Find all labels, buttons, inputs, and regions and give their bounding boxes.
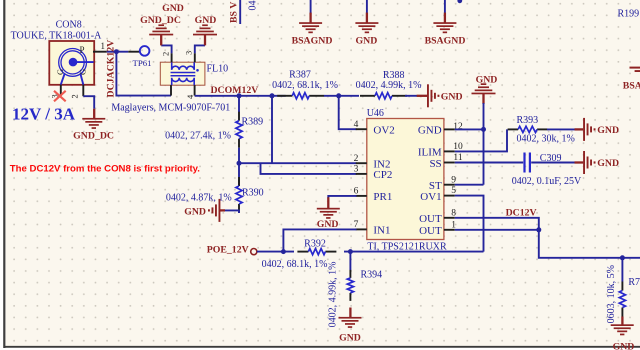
- svg-text:3: 3: [354, 165, 359, 175]
- resistor R393: [508, 128, 518, 130]
- capacitor C309: [523, 153, 525, 173]
- wire SS to C309: [455, 162, 523, 164]
- svg-text:G: G: [78, 69, 88, 75]
- svg-text:SS: SS: [429, 158, 441, 170]
- svg-text:R389: R389: [242, 116, 264, 127]
- svg-text:12V / 3A: 12V / 3A: [12, 105, 76, 124]
- U46 pin names right: [418, 125, 442, 237]
- wire OV2 tap down to pin 4: [339, 96, 357, 129]
- node junction OUT: [536, 227, 541, 232]
- wire R389 to junction: [238, 148, 240, 164]
- svg-text:TOUKE, TK18-001-A: TOUKE, TK18-001-A: [11, 30, 103, 41]
- svg-text:DC12V: DC12V: [506, 207, 537, 218]
- svg-text:0402, 68.1k, 1%: 0402, 68.1k, 1%: [262, 259, 328, 270]
- partial ground right edge: [630, 67, 640, 69]
- svg-text:12: 12: [453, 122, 463, 132]
- svg-text:OUT: OUT: [419, 213, 442, 225]
- resistor R387: [277, 95, 292, 97]
- no-ERC red cross: [54, 91, 66, 102]
- svg-text:0402, 4.99k, 1%: 0402, 4.99k, 1%: [356, 80, 422, 91]
- node junction OV2 tap: [336, 93, 341, 98]
- pin 1 of CON8: [93, 51, 107, 53]
- wire PR1 to ground: [328, 196, 356, 198]
- wire to BSAGND 2: [444, 0, 446, 13]
- svg-text:BSAGND: BSAGND: [425, 36, 466, 47]
- svg-text:GND: GND: [613, 342, 635, 350]
- node junction at pin1: [114, 49, 119, 54]
- U46 right pin stubs: [444, 129, 455, 229]
- ground GND under PR1: [327, 197, 329, 208]
- svg-text:OV1: OV1: [420, 191, 441, 203]
- svg-text:2: 2: [354, 154, 359, 164]
- svg-text:PR1: PR1: [373, 191, 392, 203]
- svg-text:BS V: BS V: [229, 2, 240, 23]
- wire junction down to R394: [349, 252, 351, 270]
- port POE_12V: [251, 249, 257, 255]
- wire FL10 pin4 to R387 (DCOM12V rail): [195, 95, 286, 97]
- node junction R389 tap: [237, 93, 242, 98]
- wire up to OV1 pin 5: [455, 196, 484, 252]
- ground BSAGND 2: [444, 13, 446, 23]
- svg-text:1: 1: [101, 41, 106, 51]
- wire GND vertical: [483, 103, 485, 185]
- svg-text:4: 4: [354, 120, 359, 130]
- wire junction to TP61: [116, 51, 128, 53]
- wire ILIM to GND vertical: [455, 129, 507, 151]
- wire OUT pin1: [455, 229, 539, 231]
- ground GND above FL10: [204, 35, 206, 46]
- svg-text:G: G: [55, 69, 65, 75]
- wire to BSAGND 1: [310, 0, 312, 13]
- wire pin1 to junction: [107, 51, 117, 53]
- svg-text:GND: GND: [356, 36, 378, 47]
- resistor R392: [297, 251, 308, 253]
- wire R390 to ground: [225, 210, 239, 213]
- ground GND under R394: [349, 308, 351, 318]
- ground GND top: [366, 13, 368, 23]
- wire junction to IN2 row: [239, 162, 357, 164]
- node junction R79x tap: [620, 255, 625, 260]
- resistor R394: [349, 270, 351, 278]
- U46 left pin stubs: [356, 129, 367, 229]
- svg-text:GND: GND: [597, 158, 619, 169]
- node junction GND net: [481, 127, 486, 132]
- wire C309 to ground: [531, 162, 574, 164]
- svg-text:P: P: [80, 45, 85, 55]
- U46 pin numbers left: [354, 120, 359, 230]
- test point TP61: [140, 46, 150, 56]
- svg-text:The DC12V from the CON8 is fir: The DC12V from the CON8 is first priorit…: [10, 163, 200, 174]
- wire R387 to R388: [324, 95, 359, 97]
- svg-text:2: 2: [161, 52, 171, 56]
- U46 pin names left: [373, 125, 394, 237]
- ground GND_DC above FL10: [160, 35, 162, 46]
- svg-text:GND_DC: GND_DC: [73, 130, 114, 141]
- wire R388 to ground: [405, 95, 417, 97]
- wire FL10 pin3 to GND: [195, 45, 205, 53]
- op IC U46 TPS2121 body: [367, 119, 444, 240]
- svg-text:GND: GND: [476, 75, 498, 86]
- svg-text:R394: R394: [361, 269, 383, 280]
- svg-text:POE_12V: POE_12V: [207, 245, 249, 256]
- ground GND right of C309: [575, 161, 584, 163]
- wire OUT pin8: [455, 218, 539, 230]
- svg-text:FL10: FL10: [207, 64, 229, 75]
- wire DCOM tap down to IN2: [271, 96, 273, 163]
- node junction IN1 tap: [281, 249, 286, 254]
- svg-text:GND: GND: [162, 3, 184, 14]
- svg-text:GND: GND: [317, 219, 339, 230]
- wire FL10 pin2 to GND_DC: [161, 45, 171, 53]
- svg-text:OUT: OUT: [419, 225, 442, 237]
- svg-text:R393: R393: [517, 115, 539, 126]
- svg-text:3: 3: [184, 51, 194, 55]
- wire DCOM down to R389: [238, 96, 240, 112]
- svg-text:GND: GND: [418, 125, 442, 137]
- svg-text:CP2: CP2: [373, 169, 392, 181]
- connector CON8 DC jack: [49, 41, 94, 85]
- FL10 pin 1: [170, 85, 172, 96]
- node junction R389/R390: [237, 161, 242, 166]
- svg-text:CON8: CON8: [56, 19, 82, 30]
- wire pin2 to ground: [83, 96, 94, 109]
- FL10 pin 4: [194, 85, 196, 96]
- wire pin12 to GND vertical: [455, 128, 484, 130]
- svg-text:GND: GND: [195, 15, 217, 26]
- node junction R394 tap: [348, 249, 353, 254]
- svg-text:BSAGND: BSAGND: [292, 36, 333, 47]
- filter FL10 common-mode choke: [160, 62, 205, 85]
- svg-text:2: 2: [70, 94, 80, 98]
- resistor R390: [238, 177, 240, 186]
- pin 3 of CON8 (no connect): [60, 85, 62, 97]
- wire junction down to R390: [238, 163, 240, 186]
- svg-text:R390: R390: [242, 187, 264, 198]
- ground GND bottom right: [621, 317, 623, 326]
- ground GND right of R393: [575, 128, 584, 130]
- svg-text:0603, 10k, 5%: 0603, 10k, 5%: [606, 265, 617, 323]
- svg-text:0402, 4.99k, 1%: 0402, 4.99k, 1%: [327, 262, 338, 328]
- wire BS V stub: [239, 0, 241, 24]
- svg-text:BSAG: BSAG: [623, 81, 640, 92]
- ground BSAGND 1: [309, 13, 311, 23]
- svg-text:TP61: TP61: [132, 58, 151, 68]
- svg-text:OV2: OV2: [373, 125, 394, 137]
- wire up to IN1: [283, 229, 356, 251]
- svg-text:R392: R392: [304, 239, 326, 250]
- svg-text:0402, 68.1k, 1%: 0402, 68.1k, 1%: [272, 80, 338, 91]
- node junction top edge: [457, 0, 462, 3]
- svg-text:R79: R79: [628, 277, 640, 288]
- svg-text:GND: GND: [184, 206, 206, 217]
- resistor R389: [238, 112, 240, 121]
- svg-text:U46: U46: [367, 108, 384, 119]
- ground GND_DC under CON8: [93, 109, 95, 119]
- FL10 pin 2: [171, 53, 173, 62]
- svg-text:GND: GND: [597, 125, 619, 136]
- wire junction down to R79: [621, 258, 623, 282]
- svg-text:R199: R199: [618, 8, 640, 19]
- pin 2 of CON8: [82, 85, 84, 97]
- wire jog to CP2: [261, 163, 357, 174]
- svg-text:GND: GND: [441, 91, 463, 102]
- svg-text:0402, 27.4k, 1%: 0402, 27.4k, 1%: [165, 130, 231, 141]
- wire junction down to FL10 pin 1: [116, 52, 171, 96]
- wire R393 to ground: [547, 128, 575, 130]
- wire to GND top: [366, 0, 368, 13]
- ground GND right of R388: [417, 95, 428, 97]
- svg-text:Maglayers, MCM-9070F-701: Maglayers, MCM-9070F-701: [111, 102, 230, 113]
- svg-text:0402, 4.87k, 1%: 0402, 4.87k, 1%: [166, 192, 232, 203]
- U46 pin numbers right: [451, 122, 463, 230]
- node junction IN2 tap: [270, 93, 275, 98]
- svg-text:0402, 0.1uF, 25V: 0402, 0.1uF, 25V: [512, 176, 582, 187]
- wire OUT down and right: [539, 230, 640, 258]
- wire R392 to OV1 corner: [344, 251, 484, 253]
- svg-text:IN1: IN1: [373, 225, 390, 237]
- resistor R79: [621, 282, 623, 291]
- wire POE to R392: [257, 251, 294, 253]
- ground GND left of R390: [220, 209, 226, 211]
- FL10 pin 3: [194, 53, 196, 62]
- wire ST from GND vertical: [455, 184, 484, 186]
- svg-text:GND_DC: GND_DC: [140, 15, 181, 26]
- svg-text:DCOM12V: DCOM12V: [210, 85, 258, 96]
- svg-text:04: 04: [248, 1, 259, 11]
- svg-text:0402, 30k, 1%: 0402, 30k, 1%: [517, 134, 575, 145]
- resistor R388: [360, 95, 375, 97]
- svg-text:DCJACK12V: DCJACK12V: [106, 40, 117, 98]
- svg-text:GND: GND: [339, 333, 361, 344]
